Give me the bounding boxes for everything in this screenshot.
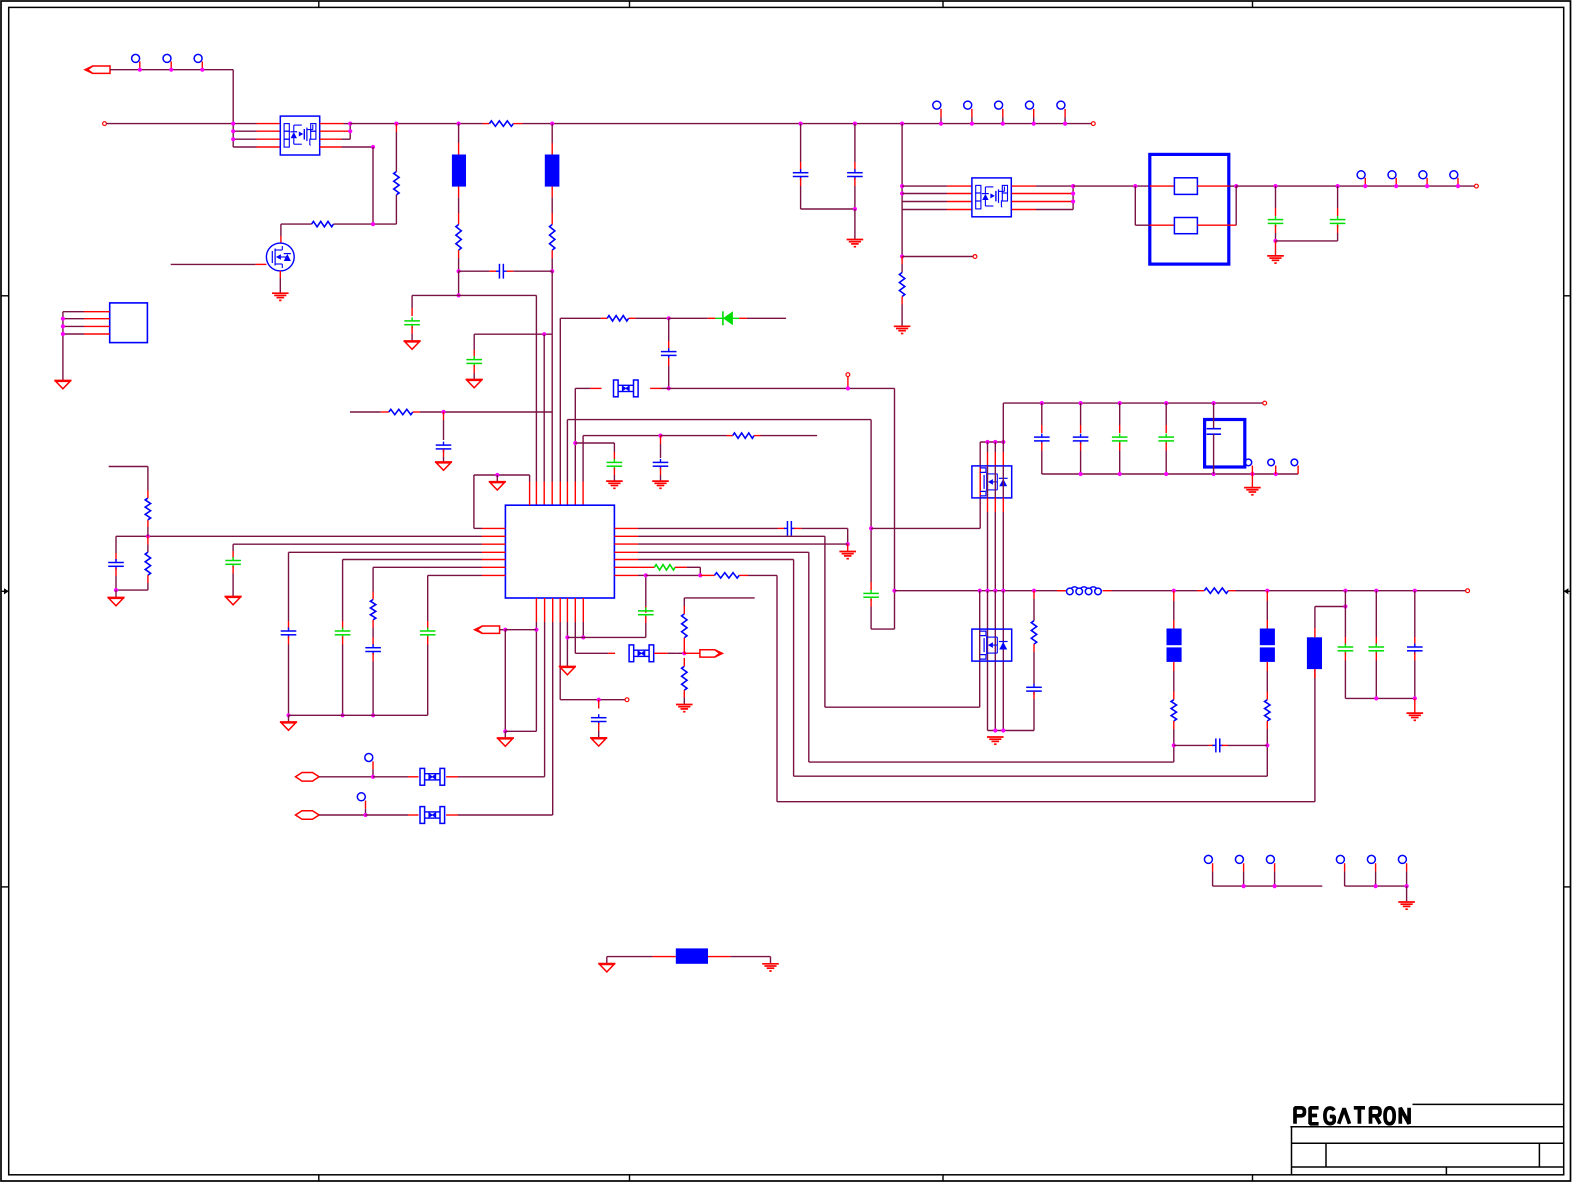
wire C18 lower <box>854 186 856 209</box>
MOSFET Q2 <box>266 243 294 271</box>
junction r14 join <box>698 573 702 577</box>
junction fb divider <box>146 534 150 538</box>
pin red R17 bottom <box>1033 644 1035 652</box>
wire lg gate row <box>825 706 980 708</box>
fuse F4 <box>629 645 634 662</box>
wire scl row a <box>319 814 366 816</box>
wire pin1 loop riser <box>529 475 531 482</box>
fuse block F5 outline <box>1150 154 1229 264</box>
pin red IC left6 <box>482 566 505 568</box>
resistor R17 snub <box>1031 621 1036 644</box>
wire vout row a <box>1112 590 1198 592</box>
pin red bt2 stem <box>1275 466 1277 475</box>
wire q3 row3 <box>902 201 947 203</box>
wire R9 top link <box>109 466 148 468</box>
pin red IC top2 <box>535 482 537 506</box>
resistor R7 <box>607 316 628 321</box>
junction drain c <box>993 440 997 444</box>
junction col b sw <box>985 589 989 593</box>
junction tp bus 1a <box>1242 884 1246 888</box>
pin red IC right1 <box>614 527 638 529</box>
wire row4 left <box>233 146 256 148</box>
inductor L1 <box>1067 588 1074 595</box>
dual MOSFET Q5 block <box>972 629 1012 661</box>
wire pin1 loop left <box>473 475 475 528</box>
pin red F8 right <box>708 956 730 958</box>
capacitor C21 <box>1034 436 1050 438</box>
wire C19 lower <box>1275 233 1277 241</box>
border tick bottom 3 <box>942 1175 944 1181</box>
pin red C9 top <box>232 551 234 559</box>
border tick right 2 <box>1564 886 1571 888</box>
capacitor C22 <box>1073 436 1089 438</box>
pin red C23 top <box>1119 425 1121 433</box>
pin red FB2 in <box>1173 620 1175 629</box>
pin red C1 left <box>489 270 496 272</box>
pin red R13 top <box>683 658 685 666</box>
pin red F5b right <box>1197 224 1236 226</box>
junction row2 x233 <box>231 129 235 133</box>
junction bt2 stem <box>1274 472 1278 476</box>
wire vout row b <box>1236 590 1466 592</box>
pin red R12 top <box>683 606 685 614</box>
wire cap couple red top <box>870 582 872 591</box>
wire diode row b <box>635 317 668 319</box>
pin red C14 bottom <box>598 723 600 731</box>
resistor R11 <box>370 600 375 620</box>
wire C19 upper <box>1275 186 1277 208</box>
wire rt row <box>428 574 482 576</box>
pin red C27 bottom <box>1344 652 1346 660</box>
pin red F5b left <box>1150 224 1175 226</box>
wire C21 upper <box>1041 403 1043 425</box>
pin red R11 top <box>372 592 374 600</box>
wire 12V drop x552 <box>551 271 553 334</box>
ground C3 <box>466 379 483 381</box>
junction FB4 link <box>1343 604 1347 608</box>
junction C22 bottom <box>1079 472 1083 476</box>
wire en row end <box>761 435 818 437</box>
resistor R18 <box>1171 700 1176 721</box>
junction C4 tap <box>441 410 445 414</box>
junction C14 tap <box>597 698 601 702</box>
wire vout gnd stub <box>1414 698 1416 712</box>
pin red R13 bottom <box>683 690 685 697</box>
wire C2 to gnd <box>411 334 413 341</box>
pin red C2 bottom <box>411 326 413 334</box>
wire R12 top row <box>684 597 754 599</box>
junction diode row <box>667 316 671 320</box>
wire sw riser <box>808 552 810 762</box>
junction row4 bootstrap <box>371 145 375 149</box>
wire C9 drop <box>232 544 234 551</box>
wire C13 upper <box>427 575 429 621</box>
ground C19 <box>1267 255 1284 257</box>
pin red R6 right <box>413 411 420 413</box>
wire shield row a <box>607 956 653 958</box>
resistor R8 <box>733 433 754 438</box>
pin red IC left3 <box>482 543 505 545</box>
pin red row4 right <box>320 146 342 148</box>
wire F1 to R4 <box>458 197 460 213</box>
pin red C1 right <box>507 270 514 272</box>
wire Q2 drain drop <box>280 224 282 236</box>
junction rail F1 top <box>457 122 461 126</box>
junction gnd row mid <box>581 635 585 639</box>
pin red F2 bottom <box>551 187 553 198</box>
junction C15 top <box>644 573 648 577</box>
pin red IC top6 <box>566 482 568 506</box>
wire C22 lower <box>1080 451 1082 475</box>
pin red C19 top <box>1275 208 1277 216</box>
wire gnd row <box>567 636 645 638</box>
wire shield elbow <box>606 957 608 964</box>
junction sense row <box>457 293 461 297</box>
wire gate row right <box>373 223 396 225</box>
junction tp bus 1b <box>1273 884 1277 888</box>
capacitor C13 <box>420 630 436 632</box>
wire C15 column <box>645 575 647 606</box>
wire row4 to bootstrap <box>342 146 374 148</box>
wire R10 elbow <box>147 583 149 590</box>
polymer cap FB4 <box>1307 637 1322 669</box>
wire C6 drop <box>613 443 615 452</box>
wire C23 lower <box>1119 451 1121 475</box>
battery BT1 plates <box>1207 428 1221 430</box>
wire FB3 to R19 <box>1266 671 1268 692</box>
wire R13 lower <box>683 698 685 705</box>
capacitor C25 couple <box>863 592 879 594</box>
polymer cap FB2a <box>1167 629 1182 646</box>
wire col b lower <box>987 512 989 591</box>
ground pgood <box>497 737 514 739</box>
pin red col c top <box>994 452 996 466</box>
pin red IC right2 <box>614 535 638 537</box>
pin red IC bot6 <box>574 598 576 622</box>
pin red C27 top <box>1344 637 1346 645</box>
wire couple lower <box>870 607 872 630</box>
wire C29 lower <box>1414 661 1416 699</box>
pin red C15 top <box>645 606 647 613</box>
wire vout gnd bus <box>1345 697 1414 699</box>
wire C17 upper <box>800 124 802 162</box>
dual MOSFET Q1 block <box>280 116 319 155</box>
junction sw node <box>892 589 896 593</box>
junction battery top <box>1212 401 1216 405</box>
pin red R19 top <box>1266 692 1268 700</box>
wire C6 to gnd <box>613 475 615 481</box>
wire fs riser <box>776 575 778 801</box>
wire q3 en row <box>902 256 973 258</box>
junction C22 top <box>1079 401 1083 405</box>
pin red IC right4 <box>614 551 638 553</box>
pin red IC bot4 <box>559 598 561 622</box>
junction rail x552 <box>550 122 554 126</box>
wire Q2 gate <box>171 263 256 265</box>
pin red C7 bottom <box>660 468 662 475</box>
pin circle 3V end <box>1475 184 1479 188</box>
wire r14 elbow <box>699 567 701 575</box>
pin red C6 bottom <box>613 468 615 475</box>
pin red F6 left <box>408 776 419 778</box>
wire IC top3 riser <box>543 334 545 481</box>
junction col a sw <box>978 589 982 593</box>
wire col c low <box>994 591 996 731</box>
wire shield elbow right <box>770 957 772 964</box>
pin circle 5V end <box>1091 122 1095 126</box>
wire C29 upper <box>1414 591 1416 637</box>
pin red IC bot3 <box>552 598 554 622</box>
wire C14 lower <box>598 731 600 738</box>
ground shield right <box>762 963 779 965</box>
wire lg gate col <box>979 591 981 708</box>
wire F2 upper <box>551 124 553 143</box>
pin red C30 right <box>1222 744 1228 746</box>
wire C27 upper <box>1344 591 1346 607</box>
wire isense rise a <box>1173 745 1175 762</box>
ground C7 <box>652 480 669 482</box>
junction pgood gnd <box>503 729 507 733</box>
pin red C18 bottom <box>854 178 856 186</box>
wire agnd bus <box>289 714 428 716</box>
junction tie row1 <box>348 122 352 126</box>
pin red C22 bottom <box>1080 442 1082 450</box>
wire row3 left <box>233 138 256 140</box>
pin red F3 right <box>650 387 661 389</box>
junction tp bus 2b <box>1405 884 1409 888</box>
pin red row1 left <box>257 123 281 125</box>
junction pgood tap <box>534 628 538 632</box>
wire bot7 lower <box>582 622 584 637</box>
wire col b low <box>987 591 989 731</box>
wire xtal row b <box>676 652 684 654</box>
fuse F1 <box>452 155 466 187</box>
wire ilim row <box>373 566 482 568</box>
title block row line 3 <box>1292 1166 1564 1168</box>
border tick right 1 <box>1564 295 1571 297</box>
wire pin1 loop bottom <box>474 527 482 529</box>
port CLKOUT <box>700 650 723 657</box>
polymer cap FB2b <box>1167 647 1182 662</box>
pin red IC left4 <box>482 551 505 553</box>
wire fb gnd stub <box>115 590 117 597</box>
capacitor C17 <box>793 172 809 174</box>
pin red row1 right <box>320 123 344 125</box>
battery pin circle 2 <box>1268 459 1275 466</box>
wire row2 left <box>233 130 256 132</box>
wire sw row <box>638 551 809 553</box>
pin circle osc <box>625 698 629 702</box>
diode D1 <box>722 311 724 325</box>
wire R4 to node <box>458 258 460 271</box>
wire bot3 long <box>552 622 554 815</box>
capacitor C30 series <box>1215 738 1217 752</box>
junction vout gnd b <box>1413 696 1417 700</box>
title block row line 2 <box>1292 1142 1564 1144</box>
wire bot6 lower <box>574 622 576 653</box>
pin red C24 top <box>1165 425 1167 433</box>
wire ldo bottom row <box>1042 473 1298 475</box>
pin red FB3 in <box>1266 620 1268 629</box>
pin red C26 bottom <box>1033 692 1035 700</box>
wire diode row c <box>669 317 708 319</box>
pin red C16 right <box>794 527 802 529</box>
capacitor C20 <box>1330 219 1346 221</box>
pin red R6 left <box>381 411 389 413</box>
junction q3 out2 <box>1071 191 1075 195</box>
fuse F6 <box>420 768 425 785</box>
pin red IC bot5 <box>566 598 568 622</box>
capacitor C24 <box>1158 436 1174 438</box>
wire C22 upper <box>1080 403 1082 425</box>
junction TP14 <box>363 813 367 817</box>
test point TP3 <box>194 54 202 62</box>
wire q3 out1 <box>1036 185 1073 187</box>
junction bt1 stem <box>1250 472 1254 476</box>
wire bootstrap vertical <box>372 147 374 224</box>
junction C23 top <box>1118 401 1122 405</box>
junction C29 top <box>1413 589 1417 593</box>
pin red q3 out1 <box>1012 185 1036 187</box>
wire tp bus 1 <box>1213 885 1323 887</box>
junction gnd row left <box>565 635 569 639</box>
test point TP2 <box>163 54 171 62</box>
polymer cap FB3a <box>1260 629 1275 646</box>
capacitor C12 <box>365 647 381 649</box>
pin red F5a left <box>1150 185 1175 187</box>
wire R20 lower <box>901 305 903 326</box>
pin circle boot stub <box>846 373 850 377</box>
wire q3 column <box>901 124 903 257</box>
pin red C18 top <box>854 162 856 170</box>
test point TPG1-1 <box>1204 855 1212 863</box>
pin red IC right6 <box>614 566 654 568</box>
junction FB2 top <box>1172 589 1176 593</box>
junction F5 out <box>1234 184 1238 188</box>
wire boot drop <box>894 388 896 629</box>
wire U2 pin1 link <box>63 311 84 313</box>
resistor R19 <box>1265 700 1270 721</box>
polymer cap FB3b <box>1260 647 1275 662</box>
wire vsense row <box>777 801 1315 803</box>
pin red q3 out4 <box>1012 209 1036 211</box>
pin circle q3 en <box>973 255 977 259</box>
pin red IC right3 <box>614 543 638 545</box>
wire hg gate col <box>979 442 981 528</box>
pin red R11 bottom <box>372 620 374 628</box>
pin red C15 bottom <box>645 616 647 623</box>
wire C4 to gnd <box>443 457 445 462</box>
pin red C13 bottom <box>427 636 429 644</box>
wire col b mid <box>987 466 989 498</box>
pin red C5 bottom <box>668 358 670 366</box>
pin red F4 right <box>654 652 668 654</box>
pin red R1 right <box>513 123 522 125</box>
junction drain d <box>1001 440 1005 444</box>
ground Q2 source <box>272 292 289 294</box>
junction C27 top <box>1343 589 1347 593</box>
wire scl row b <box>366 814 409 816</box>
pin red R18 top <box>1173 692 1175 700</box>
wire ldo top row <box>1003 402 1263 404</box>
ground C9 <box>225 596 242 598</box>
PEGATRON logo <box>1295 1108 1305 1124</box>
pin red C5 top <box>668 341 670 349</box>
pin red C20 top <box>1337 208 1339 216</box>
pin red R4 top <box>458 213 460 225</box>
border tick top 4 <box>1252 1 1254 7</box>
pin red F2 top <box>551 143 553 155</box>
ground vout <box>1407 712 1424 714</box>
wire cs row lower <box>638 543 848 545</box>
wire C24 upper <box>1165 403 1167 425</box>
capacitor C27 <box>1338 646 1354 648</box>
pin red R8 left <box>727 435 733 437</box>
wire U2 pin4 link <box>63 333 84 335</box>
wire vref link <box>575 442 614 444</box>
dual MOSFET Q3 block <box>972 178 1011 217</box>
wire col c upper <box>994 442 996 452</box>
test point TPG1-3 <box>1266 855 1274 863</box>
test point TP11 <box>1419 171 1427 179</box>
junction vref tap <box>573 441 577 445</box>
pin red C7 top <box>660 436 662 444</box>
wire bst row <box>638 559 794 561</box>
junction node C1 right <box>550 269 554 273</box>
junction U2 pin2 <box>61 317 65 321</box>
wire rail cont <box>522 123 800 125</box>
wire pgood gnd stub <box>504 731 506 738</box>
junction rail q3 <box>900 122 904 126</box>
pin red col c mid1 <box>994 498 996 512</box>
wire boot row b <box>661 387 669 389</box>
pin red C12 bottom <box>372 653 374 661</box>
pin red row3 right <box>320 138 342 140</box>
pin red U2 pin2 <box>84 318 110 320</box>
pin red C8 top <box>115 553 117 561</box>
wire R11 upper <box>372 567 374 591</box>
resistor R12 <box>682 614 687 638</box>
pin red C12 top <box>372 638 374 646</box>
wire C18 gnd stub <box>854 209 856 239</box>
junction hg gate tap <box>869 526 873 530</box>
junction row3 x233 <box>231 137 235 141</box>
wire fs row b <box>646 574 701 576</box>
wire col d mid <box>1002 466 1004 498</box>
wire R17 upper <box>1033 599 1035 621</box>
pin red C11 top <box>342 621 344 629</box>
wire pin1 gnd stub <box>496 475 498 482</box>
pin red C20 bottom <box>1337 225 1339 233</box>
wire main 12V rail <box>350 123 482 125</box>
test point TP12 <box>1450 171 1458 179</box>
wire FB2 upper <box>1173 601 1175 620</box>
wire R20 upper <box>901 264 903 273</box>
junction TP5 <box>970 122 974 126</box>
wire xtal row b2 <box>668 652 677 654</box>
resistor R15 <box>715 573 740 578</box>
wire ss row <box>233 543 482 545</box>
wire fuse loop down <box>1134 186 1136 225</box>
ground IC pad <box>559 666 576 668</box>
ground ldo <box>1244 487 1261 489</box>
pin red col d mid1 <box>1002 498 1004 512</box>
junction C20 tap <box>1336 184 1340 188</box>
junction TP13 <box>371 775 375 779</box>
junction q3 out1 <box>1071 184 1075 188</box>
junction src d <box>1001 728 1005 732</box>
pin red C3 top <box>473 350 475 358</box>
